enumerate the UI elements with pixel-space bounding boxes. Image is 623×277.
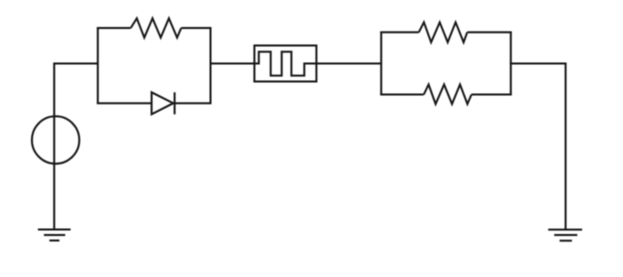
memristor M1 square-wave element [254,52,316,76]
wire: top-branch left lead [97,27,131,29]
wire: right vertical down to ground [565,63,567,230]
wire: bottom-branch right lead [175,102,212,104]
resistor R2 (top branch of right block) [419,22,467,42]
wire: top-branch right lead [181,27,211,29]
wire: horizontal from source top to left parallel block [54,63,98,65]
wire: right-block bottom-branch right lead [472,94,512,96]
wire: right-block bottom-branch left lead [380,94,424,96]
resistor R1 (top branch of left block) [131,18,182,37]
wire: right-block top-branch right lead [467,31,512,33]
ground (left) [38,230,71,241]
wire: right-block top-branch left lead [380,31,419,33]
wire: right vertical of right parallel block [510,32,512,94]
resistor R3 (bottom branch of right block) [424,85,472,105]
current source I1 [32,116,79,163]
memristor M1 (box) [254,46,316,82]
wire: left vertical of right parallel block [380,32,382,94]
diode D1 (bottom branch of left block, anode left) [152,92,175,114]
wire: right vertical of left parallel block [210,28,212,103]
wire: left block to memristor [210,63,255,65]
wire: left vertical of left parallel block [97,28,99,103]
wire: vertical through current source down to ground [53,63,55,230]
wire: bottom-branch left lead [97,102,152,104]
ground (right) [548,230,582,241]
wire: right block output horizontal [510,63,566,65]
wire: memristor to right parallel block [316,63,381,65]
